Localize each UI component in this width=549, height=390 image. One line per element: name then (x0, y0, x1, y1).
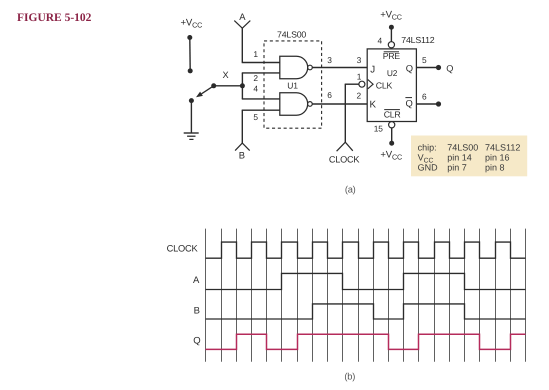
label B (timing) (194, 306, 200, 317)
svg-text:1: 1 (253, 49, 258, 59)
svg-text:pin 7: pin 7 (447, 163, 467, 173)
label 74LS00 (277, 30, 306, 40)
flip-flop U2 74LS112 body (367, 49, 416, 122)
svg-text:6: 6 (422, 92, 427, 102)
node +Vcc terminal dot (187, 35, 192, 40)
svg-text:J: J (370, 64, 375, 75)
label Q (FF output) (406, 63, 413, 74)
pin 3 label (gate output) (327, 55, 332, 65)
svg-text:GND: GND (418, 163, 439, 173)
svg-text:4: 4 (253, 84, 258, 94)
svg-text:A: A (193, 275, 200, 286)
svg-text:Q: Q (193, 336, 200, 347)
svg-text:K: K (370, 99, 377, 110)
svg-text:CLOCK: CLOCK (329, 154, 361, 164)
svg-text:6: 6 (327, 90, 332, 100)
power +Vcc (switch upper throw) (181, 18, 203, 30)
svg-text:3: 3 (357, 55, 362, 65)
label U1 (287, 80, 298, 90)
pin 2 label (253, 73, 258, 83)
label Q (external) (446, 64, 453, 74)
node Qbar output dot (436, 101, 441, 106)
waveform CLOCK (206, 242, 526, 258)
chip info box (411, 136, 527, 177)
pin 1 label (253, 49, 258, 59)
label A (239, 11, 246, 22)
svg-text:PRE: PRE (383, 51, 401, 61)
pin 2 label (K input) (357, 90, 362, 100)
node lower throw (ground) dot (189, 98, 194, 103)
pin 5 label (253, 112, 258, 122)
nand gate U1a (280, 56, 313, 79)
clr input bubble (389, 122, 395, 128)
svg-text:2: 2 (253, 73, 258, 83)
label CLOCK (329, 154, 361, 164)
ground (184, 133, 199, 139)
svg-text:5: 5 (253, 112, 258, 122)
pin 4 label (378, 36, 383, 46)
label X (223, 70, 229, 80)
wire node X to gate pin 4 (242, 98, 280, 100)
node switch pole dot (211, 83, 216, 88)
svg-text:3: 3 (327, 55, 332, 65)
svg-text:5: 5 (422, 55, 427, 65)
dashed package box 74LS00 (264, 41, 322, 128)
svg-text:(a): (a) (345, 185, 356, 195)
label A (timing) (193, 275, 200, 286)
pin 5 label (Q) (422, 55, 427, 65)
svg-text:74LS00: 74LS00 (277, 30, 306, 40)
pin 4 label (253, 84, 258, 94)
wire switch pole to node X (214, 85, 243, 87)
svg-text:A: A (239, 11, 246, 22)
svg-text:CLOCK: CLOCK (167, 244, 199, 254)
label CLOCK (timing) (167, 244, 199, 254)
svg-text:U1: U1 (287, 80, 298, 90)
svg-text:74LS00: 74LS00 (447, 142, 478, 152)
node +Vcc dot (CLR) (389, 141, 394, 146)
svg-text:Q: Q (446, 64, 453, 74)
svg-text:pin 8: pin 8 (485, 163, 505, 173)
wire A to gate pin 1 (242, 28, 280, 63)
label (a) (345, 185, 356, 195)
svg-text:FIGURE 5-102: FIGURE 5-102 (17, 12, 92, 24)
wire Qbar output (416, 103, 438, 105)
pre input bubble (388, 42, 394, 48)
chip info text (418, 142, 521, 172)
power +Vcc (CLR) (380, 149, 402, 161)
input connector B (235, 143, 250, 151)
wire node X to gate pin 2 (242, 72, 280, 74)
svg-text:U2: U2 (387, 68, 398, 78)
wire gate1 pin3 to J (312, 67, 367, 69)
label (b) (344, 371, 355, 381)
node X junction dot (240, 83, 245, 88)
pin 6 label (gate output) (327, 90, 332, 100)
input connector CLOCK (337, 142, 353, 151)
svg-text:CLK: CLK (376, 81, 393, 91)
label CLK (376, 81, 393, 91)
waveform Q (206, 334, 526, 349)
wire gate2 pin6 to K (312, 103, 367, 105)
svg-text:15: 15 (374, 123, 383, 133)
label CLR with overline (384, 110, 401, 120)
clk inverter bubble (359, 81, 365, 87)
svg-text:Q: Q (406, 63, 413, 74)
pin 3 label (J input) (357, 55, 362, 65)
svg-text:B: B (194, 306, 200, 317)
switch SPDT arm with arrowhead (196, 86, 214, 98)
node Q output dot (436, 65, 441, 70)
wire CLOCK to CLK bubble (345, 84, 359, 142)
svg-text:pin 16: pin 16 (485, 153, 510, 163)
input connector A (234, 21, 250, 29)
clk edge triangle (368, 80, 373, 89)
label B (239, 149, 245, 160)
svg-text:1: 1 (357, 71, 362, 81)
svg-text:pin 14: pin 14 (447, 153, 472, 163)
wire Q output (416, 67, 438, 69)
svg-text:74LS112: 74LS112 (485, 142, 520, 152)
svg-text:X: X (223, 70, 229, 80)
node +Vcc dot (PRE) (389, 25, 394, 30)
label 74LS112 (401, 35, 434, 45)
label K (370, 99, 377, 110)
svg-text:(b): (b) (344, 371, 355, 381)
timing grid (clock edge lines) (206, 229, 526, 362)
label Q (timing) (193, 336, 200, 347)
power +Vcc (PRE) (380, 9, 402, 21)
nand gate U1b (280, 93, 312, 116)
svg-text:74LS112: 74LS112 (401, 35, 434, 45)
svg-text:2: 2 (357, 90, 362, 100)
wire node X vertical (pin2-pin4 bracket) (241, 73, 243, 99)
wire +Vcc to upper throw contact (189, 38, 191, 71)
svg-text:chip:: chip: (418, 142, 437, 152)
label U2 (387, 68, 398, 78)
wire PRE to +Vcc (390, 27, 392, 41)
pin 1 label (CLK input) (357, 71, 362, 81)
svg-text:Q: Q (406, 98, 413, 109)
label PRE with overline (383, 51, 401, 61)
label J (370, 64, 375, 75)
wire B to gate pin 5 (242, 110, 280, 143)
svg-text:B: B (239, 149, 245, 160)
waveform A (206, 273, 526, 289)
wire CLR to +Vcc (391, 128, 393, 143)
node upper throw contact dot (188, 68, 193, 73)
svg-text:CLR: CLR (384, 110, 401, 120)
pin 15 label (374, 123, 383, 133)
wire lower throw to ground (190, 101, 192, 133)
label Qbar (FF output) with overline (405, 98, 412, 109)
figure caption FIGURE 5-102 (17, 12, 92, 24)
pin 6 label (Qbar) (422, 92, 427, 102)
svg-text:4: 4 (378, 36, 383, 46)
waveform B (206, 304, 526, 319)
